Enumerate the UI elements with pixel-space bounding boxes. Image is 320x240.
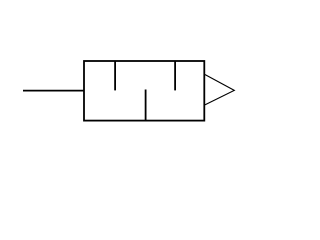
electrode finger 2 (from bottom) <box>145 90 147 121</box>
electrode finger 3 (from top) <box>174 61 176 90</box>
wire: left lead <box>23 90 84 92</box>
transducer body rectangle <box>84 61 204 121</box>
horn output triangle <box>205 75 234 105</box>
electrode finger 1 (from top) <box>114 61 116 90</box>
